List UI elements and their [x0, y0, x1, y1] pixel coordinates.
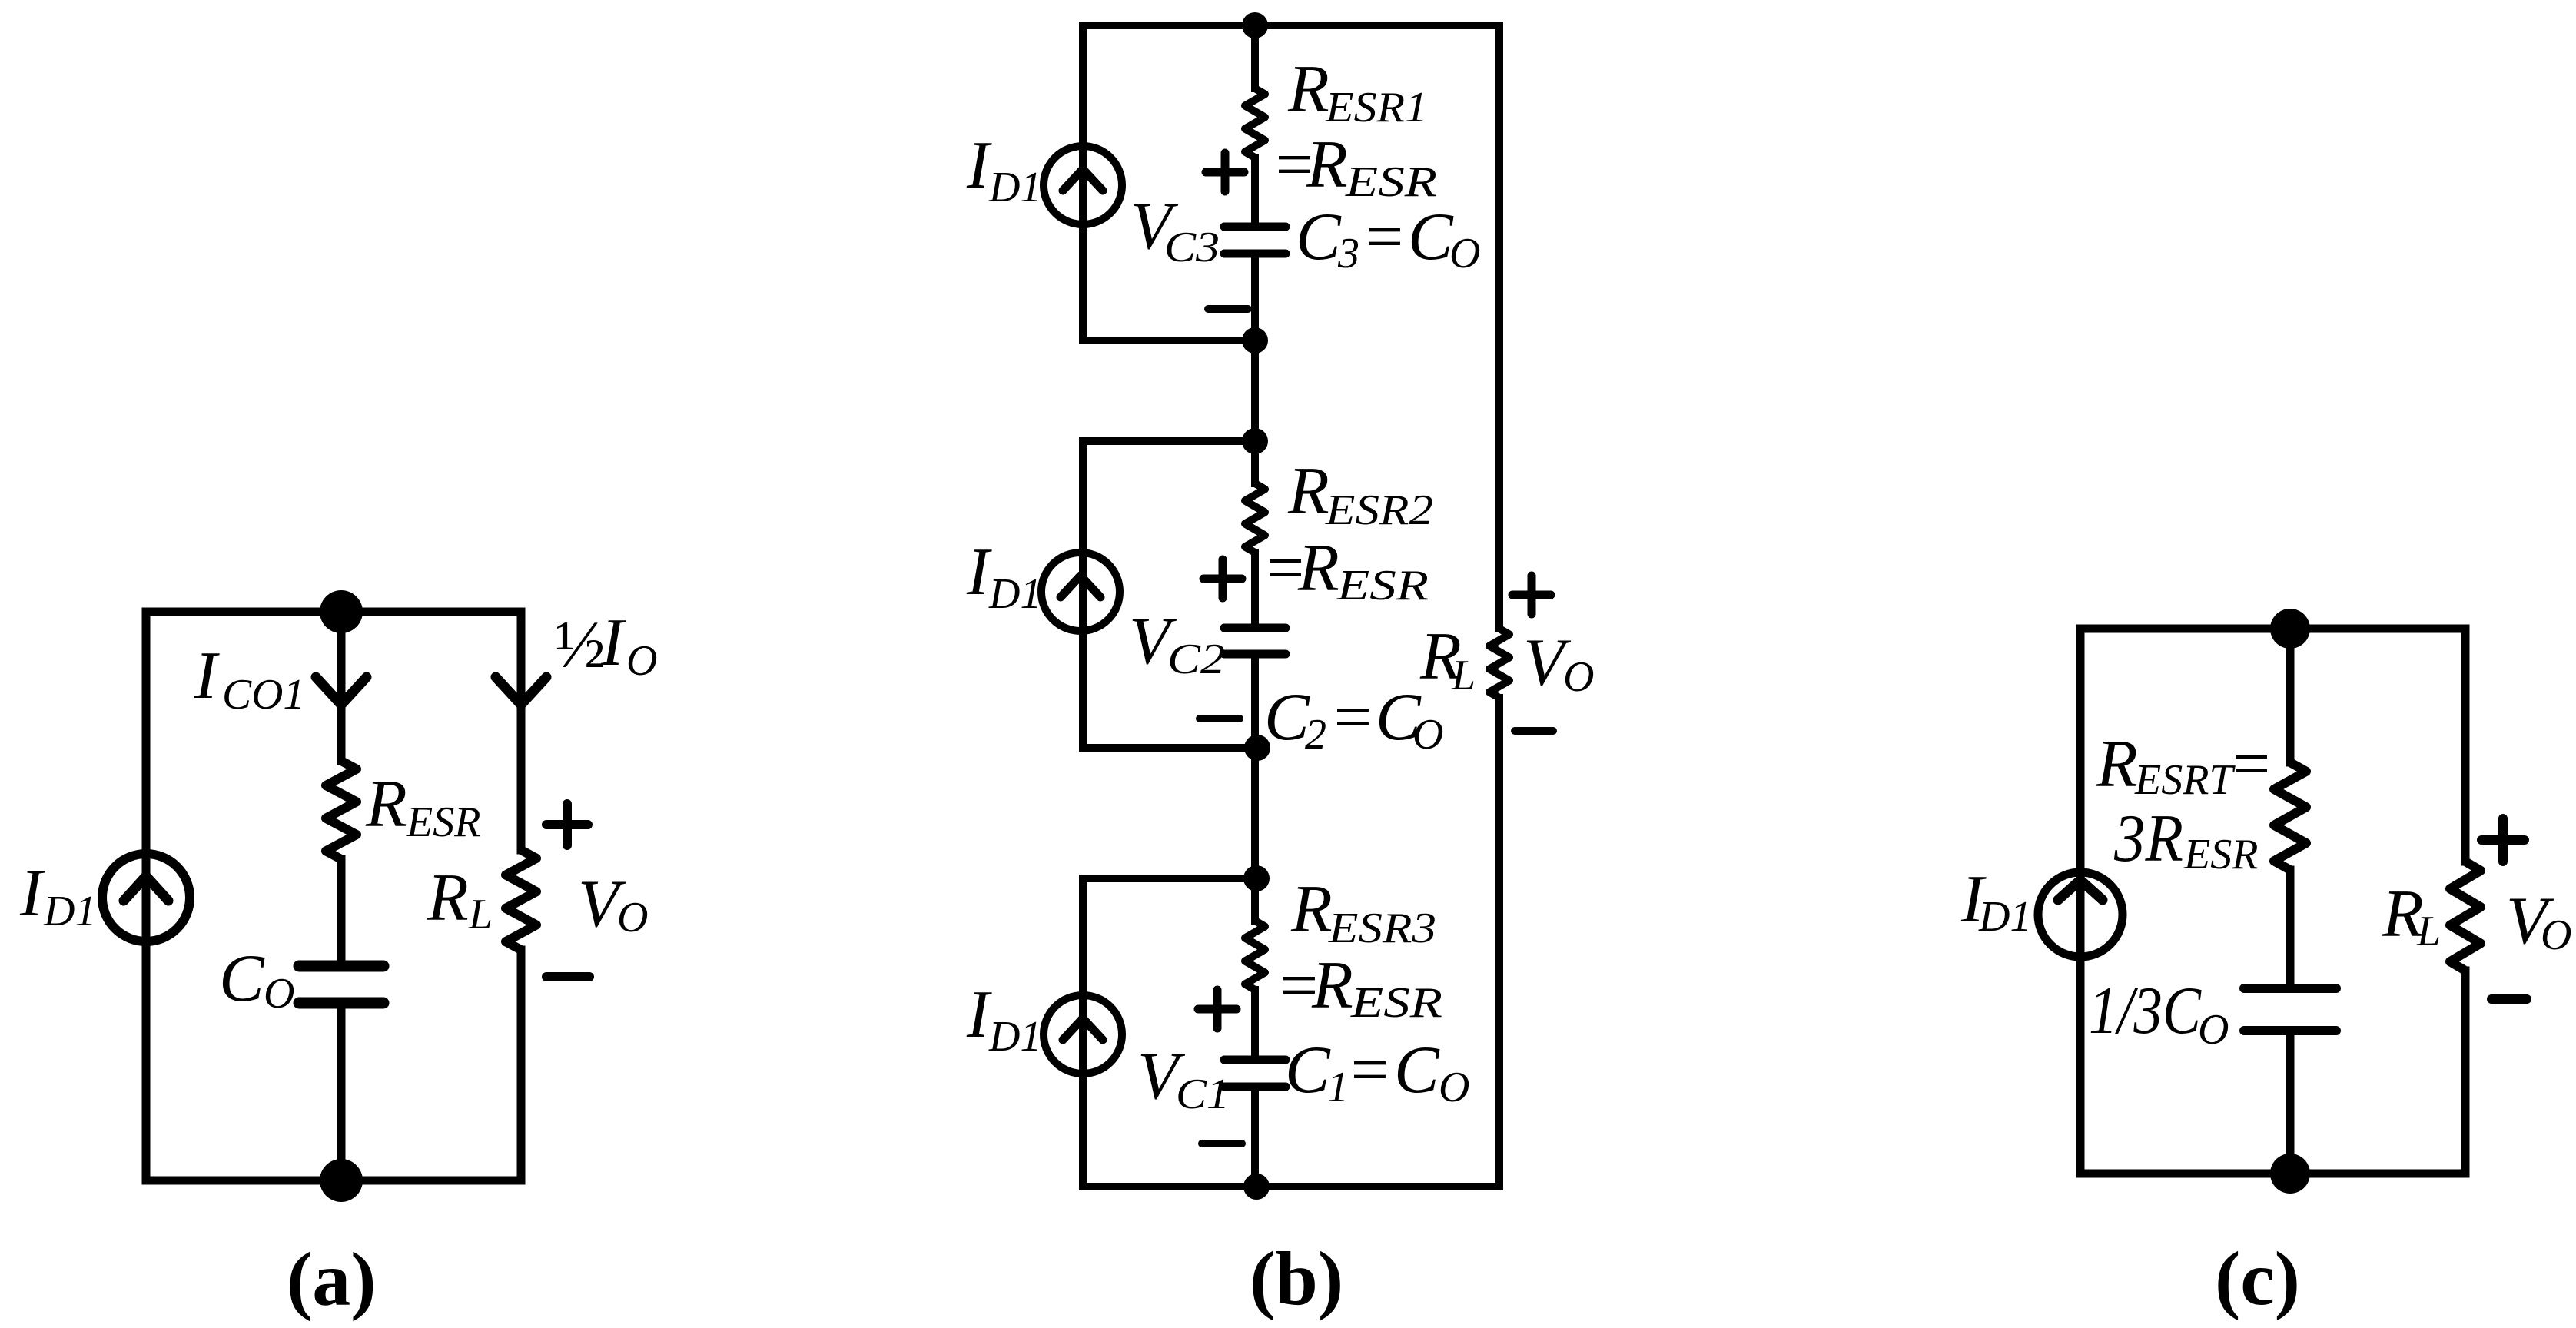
- svg-text:1: 1: [1327, 1064, 1349, 1111]
- wire (a) middle lower: [337, 1008, 346, 1180]
- svg-text:ESR3: ESR3: [1328, 905, 1436, 952]
- svg-text:ESR: ESR: [1336, 562, 1429, 609]
- svg-text:L: L: [2416, 908, 2441, 955]
- svg-text:I: I: [19, 856, 45, 931]
- wire (a) top: [146, 608, 521, 616]
- svg-text:R: R: [1290, 872, 1333, 947]
- label RESR3 (b): [1290, 872, 1436, 952]
- svg-text:I: I: [194, 639, 220, 713]
- wire (c) left: [2076, 629, 2085, 1174]
- current source ID1 (b) loop3: [1044, 995, 1122, 1074]
- capacitor C2 (b): [1224, 628, 1286, 654]
- wire (a) middle upper: [337, 612, 346, 761]
- resistor RESR (a): [326, 761, 357, 859]
- wire (b) top: [1083, 22, 1499, 29]
- label VC1 (b): [1137, 1039, 1230, 1118]
- svg-text:R: R: [1311, 948, 1353, 1023]
- svg-text:=: =: [1329, 680, 1375, 755]
- svg-text:ESRT: ESRT: [2134, 756, 2236, 804]
- svg-text:C3: C3: [1164, 224, 1220, 271]
- wire (a) left: [142, 612, 151, 1180]
- svg-text:ESR1: ESR1: [1325, 84, 1428, 131]
- svg-text:R: R: [1306, 128, 1348, 202]
- wire (b) middle seg3: [1251, 258, 1259, 483]
- wire (b) loop1 left: [1079, 25, 1087, 340]
- wire (c) bottom: [2080, 1170, 2465, 1178]
- label RL (c): [2382, 877, 2441, 955]
- label RL (a): [427, 861, 493, 938]
- label =RESR (b) loop2: [1262, 531, 1429, 609]
- svg-text:C: C: [1264, 680, 1310, 755]
- wire (c) right lower: [2461, 971, 2470, 1174]
- label VO (a): [578, 867, 648, 941]
- label =RESR (b) loop3: [1276, 948, 1442, 1027]
- wire (b) loop2 bottom: [1083, 744, 1257, 752]
- current arrow ICO1 (a): [316, 677, 367, 705]
- svg-text:O: O: [626, 637, 657, 685]
- label ID1 (c): [1960, 862, 2031, 941]
- wire (a) bottom: [146, 1177, 521, 1185]
- minus sign VC2 (b): [1200, 715, 1240, 722]
- caption (b): [1250, 1236, 1343, 1321]
- wire (a) middle mid: [337, 859, 346, 961]
- svg-text:D1: D1: [988, 1013, 1041, 1061]
- node (b) loop2 bottom junction: [1244, 735, 1270, 761]
- wire (b) middle seg2: [1251, 158, 1259, 223]
- svg-text:O: O: [1563, 653, 1594, 701]
- current source ID1 (a): [102, 854, 190, 941]
- svg-text:O: O: [2541, 911, 2571, 959]
- wire (b) loop2 left: [1079, 441, 1087, 748]
- svg-text:R: R: [1287, 454, 1329, 529]
- wire (b) middle seg1: [1251, 25, 1259, 88]
- svg-text:D1: D1: [43, 888, 96, 935]
- node (c) bottom junction: [2270, 1154, 2310, 1194]
- minus sign VO (b): [1515, 727, 1553, 735]
- svg-text:(b): (b): [1250, 1236, 1343, 1321]
- label VC2 (b): [1129, 604, 1225, 683]
- label ID1 (b) loop2: [966, 535, 1041, 618]
- svg-text:O: O: [1439, 1064, 1469, 1111]
- node (b) bottom: [1243, 1174, 1270, 1200]
- svg-text:C: C: [1408, 200, 1454, 274]
- resistor RL (c): [2450, 862, 2481, 971]
- svg-text:ESR: ESR: [406, 798, 480, 846]
- svg-text:R: R: [1287, 52, 1329, 127]
- svg-text:(c): (c): [2215, 1236, 2300, 1321]
- svg-text:R: R: [427, 861, 469, 935]
- node (a) top junction: [320, 590, 363, 633]
- label RESR1 (b): [1287, 52, 1428, 131]
- svg-text:O: O: [264, 970, 294, 1018]
- svg-text:CO1: CO1: [222, 671, 305, 719]
- wire (b) bottom: [1083, 1183, 1499, 1190]
- label 3RESR (c): [2113, 802, 2258, 878]
- label C3=CO (b): [1296, 200, 1480, 277]
- wire (b) middle seg6: [1251, 990, 1259, 1055]
- svg-text:D1: D1: [988, 570, 1041, 618]
- svg-text:C: C: [1296, 200, 1342, 274]
- label RESR2 (b): [1287, 454, 1433, 534]
- label half IO (a): [555, 606, 657, 685]
- svg-text:=: =: [1346, 1033, 1392, 1107]
- svg-text:2: 2: [1305, 711, 1326, 759]
- plus sign VC1 (b): [1198, 990, 1237, 1028]
- resistor RESR1 (b): [1245, 88, 1265, 158]
- resistor RESRT (c): [2274, 762, 2306, 870]
- svg-text:L: L: [468, 891, 493, 938]
- capacitor CO (a): [299, 966, 383, 1003]
- node (c) top junction: [2270, 609, 2310, 649]
- wire (c) right upper: [2461, 629, 2470, 862]
- wire (b) loop1 bottom: [1083, 337, 1255, 344]
- svg-text:O: O: [1449, 230, 1480, 277]
- capacitor C1 (b): [1224, 1060, 1286, 1087]
- svg-text:½: ½: [555, 608, 606, 682]
- label RESR (a): [365, 767, 480, 846]
- minus sign VC1 (b): [1202, 1140, 1242, 1147]
- resistor RL (a): [506, 850, 536, 950]
- svg-text:C: C: [1285, 1033, 1331, 1107]
- svg-text:O: O: [2198, 1006, 2229, 1054]
- minus sign VC3 (b): [1208, 305, 1248, 313]
- svg-text:C: C: [1394, 1033, 1440, 1107]
- capacitor C3 (b): [1224, 227, 1286, 254]
- wire (c) middle mid: [2286, 870, 2295, 984]
- svg-text:C: C: [219, 941, 265, 1016]
- svg-text:O: O: [1412, 711, 1443, 759]
- svg-text:ESR2: ESR2: [1325, 486, 1433, 534]
- label VC3 (b): [1130, 189, 1220, 271]
- svg-text:3: 3: [1337, 230, 1359, 277]
- wire (b) middle seg7: [1251, 1091, 1259, 1187]
- wire (b) right lower: [1495, 698, 1503, 1187]
- label ID1 (b) loop3: [966, 978, 1041, 1061]
- plus sign VO (c): [2481, 818, 2525, 862]
- wire (b) loop2 top: [1083, 437, 1255, 445]
- node (a) bottom junction: [320, 1159, 363, 1202]
- svg-text:O: O: [617, 894, 648, 941]
- svg-text:L: L: [1451, 652, 1476, 699]
- label 1/3CO (c): [2089, 974, 2229, 1054]
- svg-text:=: =: [1361, 200, 1406, 274]
- svg-text:R: R: [2096, 727, 2138, 802]
- label =RESR (b) loop1: [1271, 128, 1437, 206]
- plus sign VO (b): [1512, 576, 1551, 614]
- current arrow half-IO (a): [496, 677, 546, 705]
- node (b) loop3 top junction: [1243, 865, 1270, 891]
- svg-text:R: R: [1297, 531, 1339, 606]
- svg-text:I: I: [966, 978, 992, 1052]
- caption (a): [287, 1237, 377, 1322]
- svg-text:ESR: ESR: [1350, 979, 1442, 1027]
- svg-text:C1: C1: [1176, 1071, 1230, 1118]
- label VO (b): [1523, 626, 1594, 701]
- wire (c) top: [2080, 625, 2465, 633]
- plus sign VC2 (b): [1203, 559, 1242, 598]
- label RL (b): [1419, 619, 1476, 699]
- label ID1 (b) loop1: [966, 128, 1041, 211]
- wire (c) middle lower: [2286, 1035, 2295, 1174]
- minus sign VO (a): [546, 972, 589, 981]
- label CO (a): [219, 941, 294, 1018]
- node (b) loop1 bottom junction: [1242, 327, 1268, 354]
- caption (c): [2215, 1236, 2300, 1321]
- wire (a) right lower: [517, 950, 526, 1180]
- wire (a) right upper: [517, 612, 526, 850]
- current source ID1 (b) loop1: [1044, 146, 1122, 224]
- wire (b) middle seg5: [1251, 659, 1259, 921]
- label C2=CO (b): [1264, 680, 1443, 759]
- svg-text:I: I: [966, 128, 992, 203]
- current source ID1 (c): [2038, 872, 2123, 957]
- resistor RESR2 (b): [1245, 483, 1265, 553]
- label RESRT= (c): [2096, 727, 2273, 804]
- label VO (c): [2506, 884, 2571, 959]
- svg-text:=: =: [2228, 727, 2273, 802]
- node (b) loop2 top junction: [1242, 428, 1268, 454]
- svg-text:I: I: [966, 535, 992, 609]
- svg-text:C2: C2: [1167, 636, 1225, 683]
- label C1=CO (b): [1285, 1033, 1469, 1111]
- svg-text:D1: D1: [1978, 893, 2031, 941]
- wire (c) middle upper: [2286, 629, 2295, 762]
- svg-text:D1: D1: [988, 164, 1041, 211]
- wire (b) right upper: [1495, 25, 1503, 629]
- svg-text:I: I: [600, 606, 626, 680]
- wire (b) middle seg4: [1251, 553, 1259, 623]
- label ID1 (a): [19, 856, 96, 935]
- svg-text:ESR: ESR: [2183, 831, 2258, 878]
- svg-text:(a): (a): [287, 1237, 377, 1322]
- wire (b) loop3 left: [1079, 878, 1087, 1187]
- node (b) top: [1242, 12, 1268, 38]
- label ICO1 (a): [194, 639, 305, 719]
- svg-text:1/3C: 1/3C: [2089, 974, 2202, 1048]
- resistor RL (b): [1489, 629, 1509, 698]
- capacitor one-third CO (c): [2244, 988, 2336, 1031]
- svg-text:3R: 3R: [2113, 802, 2183, 876]
- current source ID1 (b) loop2: [1041, 553, 1120, 631]
- minus sign VO (c): [2491, 994, 2527, 1004]
- plus sign VC3 (b): [1206, 153, 1244, 191]
- svg-text:ESR: ESR: [1345, 158, 1437, 206]
- plus sign VO (a): [546, 804, 588, 845]
- resistor RESR3 (b): [1245, 921, 1265, 990]
- svg-text:R: R: [365, 767, 407, 842]
- wire (b) loop3 top: [1083, 875, 1256, 882]
